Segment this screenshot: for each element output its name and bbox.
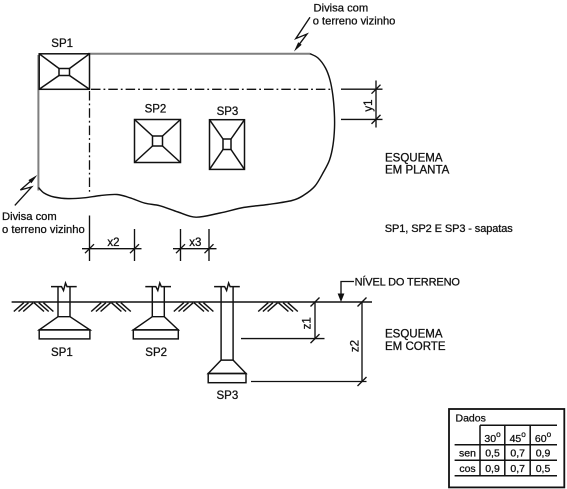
svg-text:0,5: 0,5 [536,463,551,475]
svg-text:Dados: Dados [456,412,486,424]
svg-text:NÍVEL DO TERRENO: NÍVEL DO TERRENO [355,276,461,289]
dimension y1 [341,81,383,128]
svg-text:cos: cos [459,463,475,475]
svg-text:Divisa com: Divisa com [2,211,57,223]
svg-text:x2: x2 [107,237,119,249]
boundary line top (property line) [88,53,310,55]
svg-text:0,7: 0,7 [510,463,525,475]
svg-text:o terreno vizinho: o terreno vizinho [2,224,85,236]
svg-text:SP2: SP2 [145,347,167,359]
boundary curve (terrain edge) [39,54,335,218]
svg-text:SP1: SP1 [51,38,73,50]
svg-text:x3: x3 [189,237,201,249]
dimension x3 [173,229,217,261]
svg-text:z2: z2 [349,340,361,352]
leader arrow top-right (zigzag) [296,17,310,45]
table grid [455,425,557,475]
svg-text:ESQUEMA: ESQUEMA [385,152,443,164]
soil hatch group 2 [91,303,131,312]
svg-text:0,9: 0,9 [485,463,500,475]
svg-text:SP3: SP3 [217,106,239,118]
svg-text:SP2: SP2 [145,103,167,115]
ground line (section) [12,301,372,303]
svg-text:sen: sen [459,448,476,460]
svg-text:z1: z1 [301,317,313,329]
dimension z2 [251,298,367,387]
footing SP1 (section) [39,283,90,339]
soil hatch group 1 [14,303,54,312]
svg-text:y1: y1 [363,99,375,111]
centerline horizontal (dash-dot) [91,88,331,90]
svg-text:0,5: 0,5 [485,448,500,460]
svg-text:ESQUEMA: ESQUEMA [385,328,443,340]
svg-text:0,9: 0,9 [536,448,551,460]
soil hatch group 3 [174,303,214,312]
table dados outer box [449,409,564,487]
dimension z1 [241,298,325,344]
svg-text:SP3: SP3 [217,390,239,402]
centerline vertical (dash-dot) [89,91,91,193]
leader nivel do terreno [341,282,354,300]
soil hatch group 4 [258,303,298,312]
svg-text:SP1, SP2 E SP3 - sapatas: SP1, SP2 E SP3 - sapatas [385,223,513,235]
sapata SP2 (plan) [135,120,181,163]
boundary line left (property line) [37,55,39,191]
leader arrow left (zigzag) [15,181,32,205]
footing SP3 (section) [208,283,246,383]
footing SP2 (section) [133,283,178,339]
dimension x2 [82,216,142,262]
svg-text:SP1: SP1 [51,347,73,359]
svg-text:o terreno vizinho: o terreno vizinho [313,16,396,28]
svg-text:EM CORTE: EM CORTE [385,341,446,353]
svg-text:EM PLANTA: EM PLANTA [385,164,450,176]
svg-text:Divisa com: Divisa com [314,3,369,15]
sapata SP3 (plan) [210,120,245,170]
sapata SP1 (plan) [39,54,89,90]
svg-text:0,7: 0,7 [510,448,525,460]
